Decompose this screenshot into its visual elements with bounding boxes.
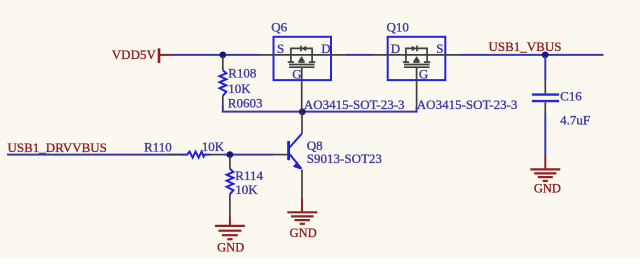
svg-text:GND: GND: [217, 241, 244, 255]
ground (C16): [530, 155, 561, 195]
svg-text:R0603: R0603: [228, 96, 263, 111]
node junction VDD5V/R108: [219, 52, 226, 59]
channel and gate plates: [404, 64, 430, 66]
resistor R108: [220, 56, 263, 111]
svg-text:AO3415-SOT-23-3: AO3415-SOT-23-3: [417, 97, 518, 112]
capacitor C16: [532, 56, 590, 155]
svg-text:C16: C16: [560, 88, 582, 103]
svg-text:10K: 10K: [202, 139, 225, 154]
svg-text:4.7uF: 4.7uF: [560, 113, 590, 128]
svg-text:G: G: [419, 66, 428, 81]
svg-text:R108: R108: [228, 66, 256, 81]
svg-text:VDD5V: VDD5V: [112, 47, 157, 62]
node junction gate net / Q8 collector: [299, 108, 306, 115]
pin G: [416, 67, 418, 108]
svg-text:GND: GND: [534, 181, 561, 195]
wire Q6 D to Q10 D: [345, 54, 374, 56]
svg-text:10K: 10K: [228, 81, 251, 96]
svg-text:S9013-SOT23: S9013-SOT23: [307, 151, 382, 166]
resistor R110: [144, 139, 225, 158]
svg-text:USB1_VBUS: USB1_VBUS: [489, 39, 562, 54]
ground (R114): [215, 217, 245, 255]
svg-text:S: S: [277, 41, 284, 56]
wire Q10 S to right end: [459, 54, 603, 56]
pin G: [301, 67, 303, 111]
transistor Q8 (NPN): [274, 112, 382, 199]
node junction VBUS/C16: [542, 52, 549, 59]
ground (Q8): [287, 199, 317, 241]
channel stubs: [290, 55, 292, 62]
body diode top bracket: [406, 48, 427, 55]
svg-text:S: S: [436, 41, 443, 56]
node junction R110/R114: [227, 151, 234, 158]
svg-text:R110: R110: [144, 139, 172, 154]
arrow (P-channel): [413, 56, 420, 61]
wire VDD5V to Q6 S pin: [173, 54, 260, 56]
svg-text:R114: R114: [235, 168, 263, 183]
svg-text:10K: 10K: [235, 182, 258, 197]
svg-text:GND: GND: [290, 226, 317, 240]
pin D / main line / pin S: [374, 54, 460, 56]
svg-text:Q6: Q6: [271, 20, 287, 35]
wire R110 to Q8 base: [224, 154, 274, 156]
transistor Q10 (P-MOSFET mirrored): [374, 20, 460, 109]
svg-text:G: G: [292, 66, 301, 81]
arrow (P-channel): [298, 56, 305, 61]
resistor R114: [227, 156, 264, 217]
channel and gate plates: [289, 64, 315, 66]
channel stubs: [405, 55, 407, 62]
svg-text:D: D: [321, 41, 330, 56]
pin S / main line / pin D: [260, 54, 346, 56]
power port VDD5V: [112, 47, 173, 63]
svg-text:Q10: Q10: [387, 20, 409, 35]
svg-text:D: D: [391, 41, 400, 56]
svg-text:USB1_DRVVBUS: USB1_DRVVBUS: [8, 140, 107, 155]
wire gate net (R108 bottom to Q10 gate): [223, 106, 417, 112]
body diode top bracket: [291, 48, 312, 55]
svg-text:AO3415-SOT-23-3: AO3415-SOT-23-3: [304, 97, 405, 112]
transistor Q6 (P-MOSFET): [260, 20, 346, 112]
wire USB1_DRVVBUS to R110: [7, 154, 181, 156]
